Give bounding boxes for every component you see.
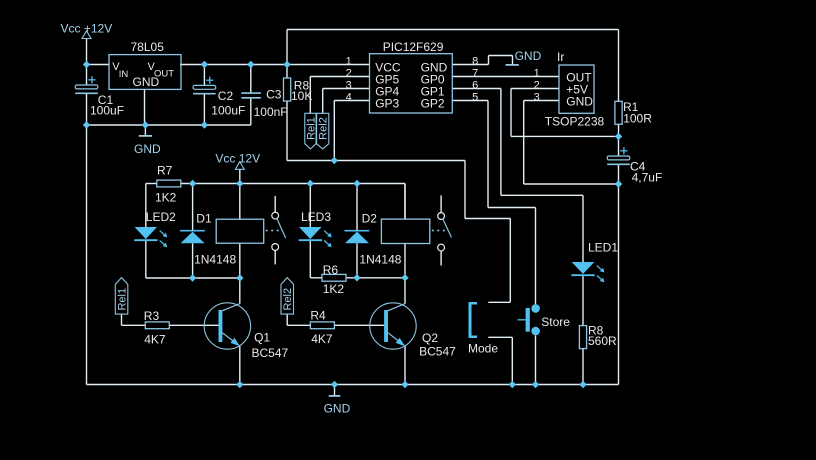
svg-text:Vcc 12V: Vcc 12V [215, 152, 260, 166]
svg-text:10K: 10K [291, 89, 312, 103]
svg-text:4: 4 [346, 91, 352, 103]
svg-text:R7: R7 [157, 163, 173, 177]
svg-text:4,7uF: 4,7uF [632, 170, 663, 184]
svg-text:1: 1 [346, 55, 352, 67]
svg-text:LED3: LED3 [301, 210, 331, 224]
svg-text:8: 8 [472, 55, 478, 67]
svg-text:100R: 100R [623, 111, 652, 125]
svg-text:1: 1 [534, 67, 540, 79]
svg-text:Ir: Ir [557, 50, 564, 64]
svg-text:3: 3 [534, 91, 540, 103]
svg-text:IN: IN [119, 69, 129, 80]
svg-text:100uF: 100uF [90, 104, 124, 118]
svg-text:C3: C3 [266, 88, 282, 102]
svg-text:5: 5 [472, 91, 478, 103]
svg-text:TSOP2238: TSOP2238 [545, 114, 605, 128]
svg-text:2: 2 [346, 67, 352, 79]
svg-text:GP3: GP3 [375, 96, 399, 110]
svg-text:Mode: Mode [468, 341, 498, 355]
svg-text:GP2: GP2 [421, 96, 445, 110]
svg-text:R4: R4 [310, 309, 326, 323]
svg-text:GND: GND [566, 95, 593, 109]
svg-text:1K2: 1K2 [323, 282, 345, 296]
svg-text:Q1: Q1 [254, 331, 270, 345]
svg-text:100nF: 100nF [254, 105, 288, 119]
svg-text:1K2: 1K2 [155, 191, 177, 205]
svg-text:BC547: BC547 [252, 346, 289, 360]
svg-text:D1: D1 [196, 211, 212, 225]
svg-text:Vcc +12V: Vcc +12V [61, 22, 113, 36]
svg-text:LED2: LED2 [146, 210, 176, 224]
svg-text:GND: GND [134, 142, 161, 156]
svg-text:1N4148: 1N4148 [359, 253, 401, 267]
svg-text:100uF: 100uF [211, 103, 245, 117]
svg-text:R6: R6 [323, 263, 339, 277]
svg-text:Rel1: Rel1 [305, 117, 317, 140]
svg-text:4K7: 4K7 [144, 333, 166, 347]
svg-text:R3: R3 [144, 309, 160, 323]
svg-text:BC547: BC547 [419, 345, 456, 359]
svg-text:1N4148: 1N4148 [194, 253, 236, 267]
svg-text:C2: C2 [218, 89, 234, 103]
svg-text:2: 2 [534, 79, 540, 91]
svg-text:GND: GND [133, 75, 160, 89]
svg-text:PIC12F629: PIC12F629 [383, 40, 444, 54]
svg-text:Rel2: Rel2 [282, 288, 294, 311]
svg-text:3: 3 [346, 79, 352, 91]
svg-text:560R: 560R [588, 334, 617, 348]
svg-text:Rel2: Rel2 [318, 117, 330, 140]
svg-text:GND: GND [324, 402, 351, 416]
svg-text:Store: Store [541, 315, 570, 329]
svg-text:6: 6 [472, 79, 478, 91]
svg-text:GND: GND [515, 49, 542, 63]
svg-text:4K7: 4K7 [311, 332, 333, 346]
svg-text:Q2: Q2 [422, 331, 438, 345]
svg-text:Rel1: Rel1 [116, 288, 128, 311]
svg-text:D2: D2 [362, 211, 378, 225]
svg-text:78L05: 78L05 [131, 40, 165, 54]
svg-text:LED1: LED1 [588, 241, 618, 255]
svg-text:7: 7 [472, 67, 478, 79]
